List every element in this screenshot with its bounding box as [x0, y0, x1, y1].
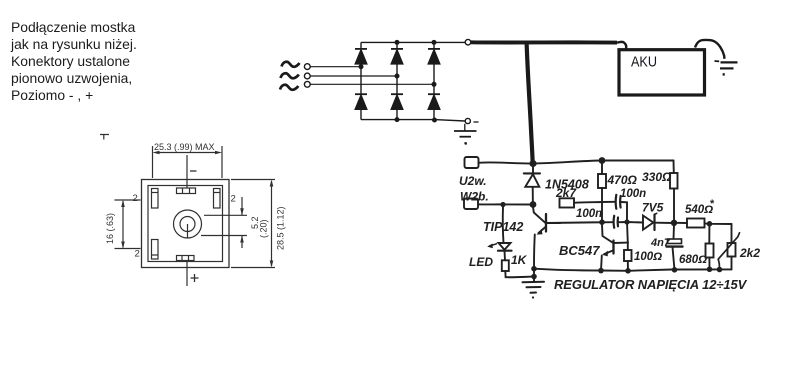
node dot top rail at thick wire — [529, 160, 536, 167]
terminal bottom-center — [177, 256, 195, 261]
terminal circle phase 1 — [304, 64, 310, 70]
AC phase symbol 3 — [280, 85, 298, 90]
label 470 — [607, 173, 638, 187]
svg-text:2: 2 — [133, 193, 138, 204]
label 2k2 — [739, 246, 760, 260]
terminal top-center — [177, 188, 196, 194]
zener diode 7V5 — [643, 213, 657, 230]
wire 470 to collector node — [601, 188, 603, 222]
wire AKU to ground curl — [695, 40, 724, 59]
note text block — [11, 19, 137, 104]
wire node E down to 100R — [626, 222, 629, 250]
svg-text:25.3 (.99) MAX: 25.3 (.99) MAX — [154, 142, 215, 152]
tab mark 2 right-top — [231, 194, 236, 205]
wire node G down to 680 — [708, 224, 710, 244]
node dot base wire — [530, 201, 537, 208]
diode D5 lower col2 — [391, 94, 403, 109]
connector terminal W2b — [464, 199, 478, 210]
bottom rail — [534, 269, 732, 271]
label 2k7 — [555, 186, 577, 200]
package outer body — [142, 180, 230, 268]
wire node E to zener — [618, 221, 643, 224]
diode leg column 3 — [433, 42, 435, 119]
diode D4 lower col1 — [355, 94, 367, 109]
label 100n lower — [576, 208, 602, 220]
wire phase 3 — [310, 83, 434, 85]
svg-text:4n7: 4n7 — [650, 237, 671, 249]
ground at AKU — [715, 61, 738, 74]
svg-text:2: 2 — [135, 249, 140, 260]
wire 100R to rail — [627, 261, 629, 271]
terminal circle phase 2 — [304, 73, 310, 79]
AKU battery box — [619, 50, 705, 95]
resistor 1K — [502, 260, 509, 271]
svg-text:2k7: 2k7 — [555, 186, 577, 200]
label 330 — [642, 170, 672, 184]
plus sign — [191, 274, 199, 282]
left dim 16 (.63) — [115, 200, 141, 249]
diode leg column 1 — [360, 42, 362, 119]
label U2w. — [459, 174, 487, 188]
node dot F — [671, 220, 677, 226]
junction dot phase2-col2 — [395, 74, 400, 79]
mounting hole inner — [180, 217, 195, 238]
resistor 470 wire top — [601, 161, 603, 175]
right dim 28.5 (1.12) — [231, 180, 275, 268]
dim text 28.5 (1.12) rotated — [276, 206, 286, 250]
resistor 2k7 — [560, 198, 575, 207]
dimension line 25.3 — [153, 146, 223, 178]
label 680 — [679, 254, 707, 266]
wire node F to 540 — [674, 222, 687, 224]
wire phase 2 — [310, 75, 397, 77]
label 7V5 — [642, 201, 664, 215]
svg-text:AKU: AKU — [631, 54, 657, 71]
minus lead line — [186, 155, 188, 188]
label 540 — [685, 198, 715, 216]
diode D6 lower col3 — [428, 94, 440, 109]
top rail of bridge — [361, 41, 465, 43]
svg-text:100Ω: 100Ω — [634, 251, 662, 263]
caption REGULATOR NAPIECIA — [554, 277, 748, 292]
wire collector node to lower cap — [546, 221, 613, 224]
minus sign — [190, 170, 197, 172]
wire 4n7 to rail — [673, 247, 675, 270]
diode 1N5408 — [524, 166, 540, 205]
svg-text:28.5 (1.12): 28.5 (1.12) — [276, 206, 286, 250]
junction dot phase3-col3 — [432, 82, 437, 87]
junction dots bridge top rail — [395, 40, 437, 45]
bottom rail of bridge — [361, 120, 465, 121]
connector terminal U2w — [465, 157, 479, 168]
resistor 470 — [598, 174, 606, 188]
diode D1 upper col1 — [355, 49, 367, 64]
wire pot to rail — [731, 257, 733, 270]
wire W2b to base node — [478, 203, 533, 205]
node dot collector — [599, 219, 605, 225]
capacitor 100n lower — [614, 216, 618, 228]
svg-text:100n: 100n — [576, 208, 602, 220]
dimension label 25.3 (.99) MAX — [154, 142, 215, 152]
wire corner down to pot — [731, 224, 733, 243]
label 1K — [511, 253, 528, 267]
node dot E zener-left — [624, 219, 629, 224]
label 100R — [634, 251, 662, 263]
potentiometer 2k2 — [718, 233, 739, 270]
svg-text:680Ω: 680Ω — [679, 254, 707, 266]
dim text 16 (.63) rotated — [105, 213, 115, 244]
svg-text:100n: 100n — [620, 188, 646, 200]
resistor 680 — [706, 244, 714, 258]
resistor 330 — [670, 173, 678, 189]
junction dot phase1-col1 — [359, 64, 364, 69]
wire 330 to node F — [673, 189, 675, 223]
ground at minus output — [454, 124, 477, 144]
node dot G — [707, 221, 713, 227]
label W2b. — [460, 190, 489, 204]
output terminal circle plus — [465, 39, 471, 45]
plus lead line — [186, 261, 188, 287]
diode D2 upper col2 — [391, 49, 403, 64]
capacitor 4n7 — [667, 239, 683, 247]
svg-text:330Ω: 330Ω — [642, 170, 672, 184]
thick branch wire down to regulator — [527, 43, 533, 162]
wire phase 1 — [310, 66, 361, 68]
minus sign at output — [474, 121, 479, 123]
wire 680 to rail — [708, 258, 710, 270]
label LED — [469, 255, 493, 269]
wire hook into AKU — [617, 42, 626, 50]
capacitor 100n upper — [616, 195, 621, 209]
mounting hole outer — [174, 210, 202, 238]
thick wire plus rail to AKU — [471, 40, 617, 44]
wire top rail regulator — [479, 161, 674, 164]
svg-text:BC547: BC547 — [559, 243, 600, 258]
svg-text:(.20): (.20) — [259, 219, 269, 238]
stray ink dot — [464, 142, 466, 144]
label 1N5408 — [545, 178, 589, 192]
transistor TIP142 — [533, 207, 560, 269]
wire LED branch down — [502, 207, 505, 243]
wire zener to node F — [656, 222, 674, 224]
resistor 540 — [687, 219, 705, 228]
svg-text:1K: 1K — [511, 253, 528, 267]
resistor 330 wire top — [673, 161, 675, 174]
tab mark 2 left-top — [133, 193, 138, 204]
svg-text:470Ω: 470Ω — [607, 173, 638, 187]
wire 1K to ground node — [505, 271, 533, 277]
label 4n7 — [650, 237, 671, 249]
wire 2k7 to upper cap — [574, 202, 615, 203]
stray T mark — [100, 135, 109, 140]
output terminal circle minus — [465, 118, 470, 123]
svg-text:LED: LED — [469, 255, 493, 269]
LED diode — [498, 243, 512, 251]
hole dim leader lines 5.2 — [201, 197, 247, 248]
terminal circle phase 3 — [304, 81, 310, 87]
diode D3 upper col3 — [428, 49, 440, 64]
package inner body — [148, 186, 223, 262]
AKU label — [631, 54, 657, 71]
resistor 100R — [624, 250, 632, 261]
AC phase symbol 1 — [282, 62, 300, 67]
label 100n upper — [620, 188, 646, 200]
node dot top rail at 470 — [599, 157, 606, 164]
junction dots bridge bottom rail — [395, 117, 438, 122]
node dots rail — [598, 267, 722, 274]
LED arrow — [487, 244, 496, 249]
terminal left-top — [152, 189, 159, 209]
svg-text:540Ω: 540Ω — [685, 204, 713, 216]
wire node F down to 4n7 — [673, 225, 676, 239]
label BC547 — [559, 243, 600, 258]
svg-text:U2w.: U2w. — [459, 174, 487, 188]
svg-text:16 (.63): 16 (.63) — [105, 213, 115, 244]
dim text 5.2 (.20) rotated — [250, 216, 269, 238]
svg-text:*: * — [710, 198, 715, 210]
label TIP142 — [483, 220, 523, 234]
terminal right-top — [214, 189, 221, 209]
wire LED to 1K — [504, 251, 507, 261]
svg-text:REGULATOR NAPIĘCIA 12÷15V: REGULATOR NAPIĘCIA 12÷15V — [554, 277, 748, 292]
node dot rail-left — [531, 266, 537, 272]
transistor BC547 — [601, 225, 628, 271]
svg-text:7V5: 7V5 — [642, 201, 664, 215]
diode leg column 2 — [396, 42, 398, 119]
svg-text:2: 2 — [231, 194, 236, 205]
wire upper cap to node E — [621, 202, 627, 222]
node dot 1K return — [531, 274, 537, 280]
ground regulator — [523, 269, 545, 299]
svg-text:2k2: 2k2 — [739, 246, 760, 260]
tab mark 2 left-bottom — [135, 249, 140, 260]
AC phase symbol 2 — [281, 73, 299, 78]
node dot LED branch — [500, 202, 505, 207]
terminal left-bottom — [152, 240, 159, 260]
wire 540 to pot corner — [705, 222, 732, 225]
